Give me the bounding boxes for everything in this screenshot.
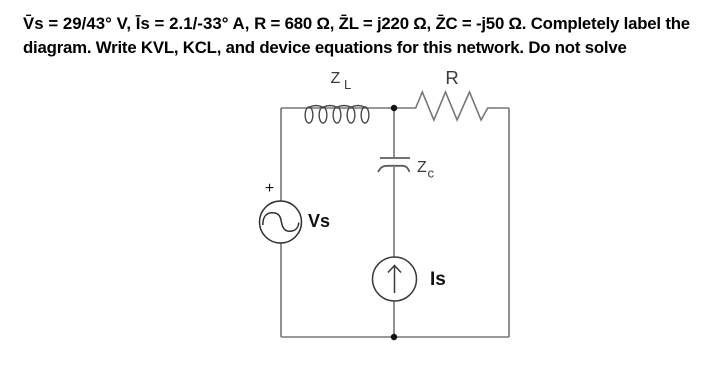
svg-text:+: +	[265, 180, 274, 197]
svg-text:Z: Z	[417, 159, 427, 176]
svg-text:Is: Is	[430, 269, 446, 290]
svg-text:Vs: Vs	[308, 211, 330, 231]
svg-text:Z: Z	[331, 70, 341, 87]
svg-text:c: c	[428, 166, 435, 181]
svg-text:R: R	[445, 67, 458, 88]
svg-text:L: L	[344, 77, 351, 92]
